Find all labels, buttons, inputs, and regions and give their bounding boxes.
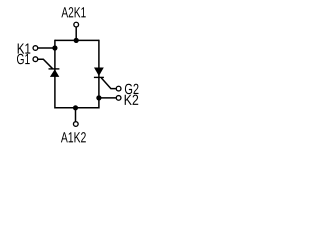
wire G2 gate lead bbox=[101, 78, 116, 89]
junction top bbox=[74, 38, 79, 43]
node K2 label bbox=[125, 95, 139, 105]
node G2 label bbox=[125, 84, 139, 94]
thyristor Q1 bbox=[49, 69, 60, 77]
terminal A2K1 bbox=[74, 22, 79, 27]
junction bottom bbox=[73, 105, 78, 110]
wire bottom rail bbox=[55, 107, 99, 109]
terminal K1 bbox=[33, 46, 38, 51]
node A2K1 label bbox=[61, 7, 85, 17]
wire left branch bbox=[54, 40, 56, 109]
wire top terminal stub bbox=[75, 27, 77, 40]
junction K1 bbox=[52, 45, 57, 50]
node K1 label bbox=[18, 43, 31, 53]
wire K1 to left branch bbox=[38, 47, 55, 49]
terminal A1K2 bbox=[73, 122, 78, 127]
node A1K2 label bbox=[61, 132, 86, 142]
node G1 label bbox=[17, 54, 30, 64]
thyristor Q2 bbox=[94, 68, 104, 78]
wire K2 to right branch bbox=[99, 97, 116, 99]
wire top rail bbox=[55, 39, 99, 41]
wire bottom terminal stub bbox=[75, 108, 77, 122]
terminal G2 bbox=[116, 86, 121, 91]
junction K2 bbox=[96, 95, 101, 100]
terminal K2 bbox=[116, 96, 121, 101]
wire G1 gate lead bbox=[38, 59, 53, 68]
wire right branch bbox=[98, 40, 100, 109]
terminal G1 bbox=[33, 57, 38, 62]
